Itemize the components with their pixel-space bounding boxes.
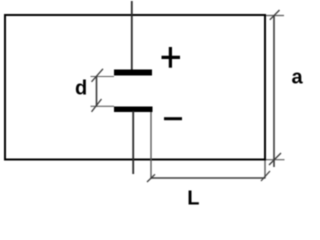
svg-text:d: d [75, 78, 87, 100]
dimension L tick (left) [147, 174, 155, 182]
wire (bottom lead out of box) [132, 111, 134, 174]
dimension L tick (right) [261, 171, 270, 181]
dimension d tick (bottom) [92, 99, 102, 112]
svg-text:a: a [292, 67, 304, 89]
enclosure rectangle [5, 15, 265, 160]
dimension L extension line (right, from box corner) [264, 161, 266, 179]
dimension L line [151, 177, 265, 179]
wire (top lead into box) [131, 1, 133, 70]
dimension a extension line (top) [266, 15, 284, 17]
minus label [164, 117, 182, 120]
capacitor plate (top, +) [114, 70, 152, 76]
dimension d extension line (bottom) [91, 105, 115, 107]
dimension a line [273, 16, 275, 167]
dimension d line [96, 77, 98, 107]
dimension a tick (bottom) [269, 153, 281, 165]
plus label [162, 47, 181, 68]
capacitor plate (bottom, -) [114, 107, 153, 113]
dimension a tick (top) [270, 10, 280, 20]
dimension a extension line (bottom) [266, 159, 285, 161]
svg-text:L: L [187, 188, 199, 208]
dimension d tick (top) [92, 69, 104, 82]
dimension L extension line (left, from bottom plate) [150, 112, 152, 179]
dimension d extension line (top) [91, 76, 115, 78]
